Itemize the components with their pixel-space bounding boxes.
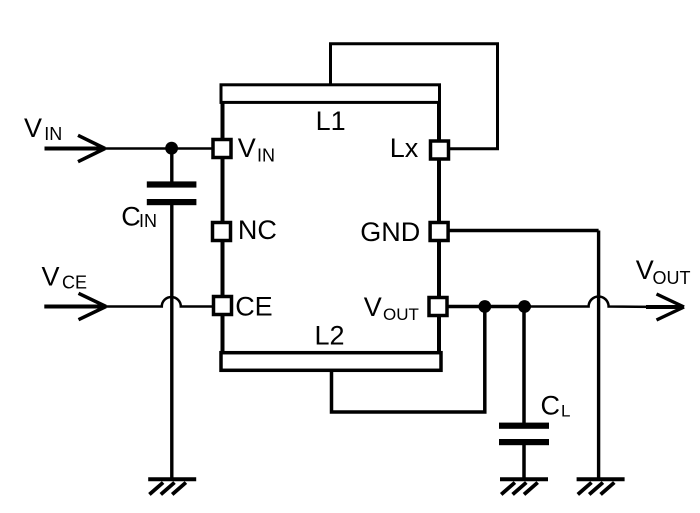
ground (left) — [148, 479, 196, 494]
wire VOUT pin to nodes — [447, 305, 531, 308]
IC body left edge — [221, 95, 225, 360]
input arrow VCE — [44, 293, 106, 319]
wire CL to ground — [522, 445, 526, 478]
ground (right) — [577, 479, 625, 494]
label pin VOUT — [364, 292, 419, 324]
label VCE (input) — [42, 262, 88, 293]
svg-text:L2: L2 — [315, 320, 345, 350]
ground (middle under CL) — [500, 479, 548, 494]
svg-text:GND: GND — [360, 217, 420, 247]
wire VOUT with hop over GND rail — [531, 297, 652, 307]
wire VIN input to pin — [104, 147, 213, 150]
input arrow VIN — [45, 135, 106, 161]
pin GND — [430, 223, 448, 241]
wire VCE to CE pin with hop — [105, 297, 213, 307]
svg-text:IN: IN — [257, 146, 275, 166]
svg-text:NC: NC — [238, 215, 277, 245]
node dot 1 on VOUT wire — [478, 300, 491, 313]
capacitor CIN — [147, 181, 197, 205]
label CIN — [121, 202, 157, 232]
svg-text:Lx: Lx — [390, 133, 419, 163]
svg-text:IN: IN — [44, 124, 62, 144]
wire CIN to ground — [170, 205, 173, 478]
pin VIN — [213, 140, 231, 158]
inductor L2 — [221, 353, 441, 371]
wire node1 to L2 tap — [332, 307, 485, 413]
svg-text:CE: CE — [235, 292, 273, 322]
svg-text:OUT: OUT — [383, 305, 419, 324]
label CL — [541, 391, 571, 421]
svg-text:CE: CE — [62, 273, 87, 293]
svg-text:C: C — [541, 391, 561, 421]
wire GND pin to ground rail — [447, 231, 599, 478]
wire node to CIN — [170, 148, 173, 182]
pin VOUT — [429, 298, 447, 316]
inductor L1 — [221, 85, 440, 103]
svg-text:V: V — [364, 292, 382, 322]
label VIN (input) — [24, 113, 62, 144]
svg-text:V: V — [42, 262, 60, 292]
wire node2 to CL — [522, 307, 526, 424]
svg-text:IN: IN — [139, 211, 157, 231]
pin CE — [214, 297, 232, 315]
svg-text:OUT: OUT — [653, 268, 691, 288]
svg-text:V: V — [636, 255, 654, 285]
node VIN junction dot — [165, 142, 178, 155]
pin NC — [213, 223, 231, 241]
svg-text:V: V — [24, 113, 42, 143]
svg-text:C: C — [121, 202, 141, 232]
wire loop L1 to Lx — [331, 44, 498, 149]
label pin VIN — [238, 133, 275, 166]
IC body right edge — [437, 95, 441, 360]
output arrow VOUT — [646, 294, 684, 320]
node dot 2 on VOUT wire — [518, 300, 531, 313]
svg-text:V: V — [238, 133, 256, 163]
capacitor CL — [499, 423, 549, 446]
label VOUT (output) — [636, 255, 691, 288]
svg-text:L: L — [561, 402, 570, 421]
svg-text:L1: L1 — [316, 106, 346, 136]
pin Lx — [431, 141, 449, 159]
